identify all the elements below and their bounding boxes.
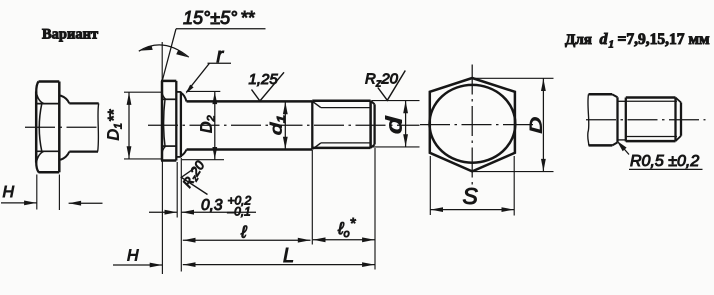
svg-text:d: d (382, 116, 407, 134)
variant fillet top (head to shank) (60, 96, 69, 104)
d dimension line (405, 101, 407, 147)
d arrow down (403, 134, 408, 147)
variant head top facet arc (36, 93, 43, 104)
right shank bottom edge (589, 144, 613, 147)
l arrow left (183, 238, 196, 243)
right thread outer top (626, 96, 676, 99)
angle leader horizontal (176, 28, 266, 30)
svg-text:L: L (283, 245, 294, 267)
svg-text:S: S (463, 183, 479, 209)
D2 arrow down (212, 147, 217, 160)
0,3 dim line right part (181, 211, 256, 213)
L dimension line (183, 264, 375, 266)
hexagon outline (430, 78, 515, 171)
angle arc arrowhead left (141, 46, 153, 51)
D1 arrow down (127, 146, 132, 159)
shank bottom edge (187, 148, 313, 151)
svg-text:–0,1: –0,1 (227, 205, 251, 219)
thread runout diagonal top (313, 101, 321, 107)
d1 arrow down (283, 137, 288, 150)
washer face extension (180, 158, 182, 272)
variant head bottom-left chamfer arc (36, 162, 39, 173)
main head bottom facet arc (162, 146, 166, 153)
variant H extension line right (58, 175, 60, 211)
svg-text:H: H (3, 184, 15, 201)
roughness tick 1,25 (252, 72, 285, 101)
shank top edge (187, 100, 313, 103)
hex centerline horizontal (420, 124, 534, 126)
main head facet line lower (162, 145, 176, 147)
main head bottom edge (161, 159, 176, 162)
variant head top-left chamfer arc (36, 82, 38, 93)
right thread outer bottom (626, 140, 676, 143)
variant fillet bottom (60, 152, 69, 160)
svg-text:D: D (527, 117, 546, 134)
L arrow left (183, 262, 196, 267)
L arrow right (362, 262, 375, 267)
angle arc arrowhead right (176, 50, 188, 57)
variant head facet line lower (36, 150, 59, 152)
S extension right (513, 156, 515, 216)
angle arc (139, 45, 189, 57)
R0,5 arrowhead (617, 141, 627, 151)
svg-text:Вариант: Вариант (42, 27, 98, 43)
thread minor diameter top line (321, 107, 371, 109)
H arrow (150, 263, 163, 268)
roughness tick Rz20 (378, 71, 406, 101)
variant H dimension line right part with arrow (69, 202, 103, 204)
D2 extension top (187, 90, 220, 92)
D extension bottom (474, 171, 554, 173)
d extension top (372, 100, 420, 102)
variant H dimension line left part with arrow (1, 202, 37, 204)
S extension left (429, 156, 431, 215)
svg-text:R0,5 ±0,2: R0,5 ±0,2 (630, 153, 699, 170)
main head left face (161, 81, 164, 161)
washer face line (180, 92, 182, 158)
thread start extension (311, 150, 313, 245)
D dimension line (542, 78, 544, 171)
variant shank bottom edge (69, 150, 98, 152)
svg-text:мм: мм (689, 31, 711, 48)
angle leader diagonal (162, 29, 176, 81)
D2 dimension line (214, 91, 216, 159)
washer top connector (176, 91, 181, 93)
d1 dimension line (284, 102, 286, 149)
R0,5 underline (629, 168, 703, 170)
main head top edge (161, 80, 176, 83)
d extension bottom (372, 146, 420, 148)
rotated roughness tick (181, 168, 207, 194)
variant head top edge (39, 80, 60, 83)
svg-text:H: H (127, 248, 139, 265)
svg-text:ℓ: ℓ (240, 223, 247, 242)
right shank end face (616, 97, 618, 142)
right chamfer diagonal top (676, 98, 682, 103)
bolt end face (373, 104, 375, 144)
thread runout diagonal bottom (313, 143, 321, 149)
right thread minor bottom (626, 136, 677, 138)
D1 extension line bottom (124, 158, 161, 160)
0,3 dim line left part (149, 211, 177, 213)
washer bottom fillet (181, 150, 186, 156)
right thread start line (625, 98, 627, 142)
D arrow down (541, 159, 546, 172)
washer top fillet r (181, 93, 186, 101)
chamfer diagonal top (371, 101, 375, 105)
main head top facet arc (162, 93, 166, 100)
0,3 extension line (head face) (176, 162, 178, 218)
D1 dimension line (128, 92, 130, 159)
D arrow up (541, 79, 546, 92)
right thread minor top (626, 100, 677, 102)
variant head right face (58, 82, 61, 173)
svg-text:15°±5°**: 15°±5°** (183, 8, 255, 28)
D extension top (473, 77, 554, 79)
variant head middle facet arc (39, 104, 42, 152)
svg-text:Для: Для (565, 32, 592, 48)
hex centerline vertical (471, 65, 473, 190)
l0 arrow right (362, 237, 375, 242)
angle extension line vertical (161, 42, 163, 80)
variant H extension line left (36, 175, 38, 210)
l dimension line (183, 239, 311, 241)
right view break line (588, 94, 589, 145)
r arrowhead (186, 85, 194, 94)
right thread end chamfer line (674, 98, 676, 142)
d1 arrow up (283, 102, 288, 115)
right shank top edge (589, 93, 613, 96)
variant head facet line upper (36, 103, 59, 105)
right shank end chamfer bottom (612, 142, 617, 145)
svg-text:1,25: 1,25 (249, 71, 279, 88)
main head middle facet arc (164, 99, 165, 146)
variant head bottom edge (39, 171, 60, 174)
main head facet line upper (162, 98, 176, 100)
svg-text:1: 1 (609, 39, 615, 51)
R0,5 leader (619, 143, 630, 155)
svg-text:d: d (600, 31, 609, 48)
svg-text:0,3: 0,3 (201, 197, 223, 214)
D1 extension line top (124, 91, 161, 93)
r leader diagonal (186, 63, 209, 92)
svg-text:=7,9,15,17: =7,9,15,17 (618, 31, 685, 48)
D1 arrow up (127, 92, 132, 105)
l arrow right (298, 238, 311, 243)
S arrow right (502, 207, 515, 212)
D2 arrow up (212, 92, 217, 105)
note text Для d1 = 7,9,15,17 мм (565, 31, 710, 51)
chamfer diagonal bottom (371, 145, 375, 148)
variant shank break line (98, 103, 99, 151)
H dim line (113, 264, 162, 266)
bolt end extension (374, 148, 376, 270)
groove top line (618, 100, 626, 102)
l0 arrow left (313, 237, 326, 242)
right view centerline (586, 119, 706, 121)
l0 dimension line (313, 239, 375, 241)
right chamfer diagonal bottom (676, 136, 682, 141)
centerline main view (148, 124, 420, 126)
variant head left face (35, 92, 38, 163)
thread end chamfer line (369, 101, 372, 148)
thread start boundary line (311, 101, 313, 150)
washer bottom connector (176, 156, 181, 158)
thread outer top (312, 100, 370, 103)
right bolt end face (680, 103, 682, 136)
thread minor diameter bottom line (321, 142, 371, 144)
thread outer bottom (312, 147, 370, 150)
main head right face (175, 81, 177, 161)
variant head bottom facet arc (36, 151, 43, 162)
d arrow up (403, 101, 408, 114)
variant shank top edge (69, 102, 98, 104)
head left face extension (161, 161, 163, 274)
inscribed chamfer circle (430, 85, 516, 163)
r underline (208, 62, 232, 64)
right shank end chamfer top (612, 94, 618, 97)
S dimension line (430, 209, 514, 211)
groove bottom line (618, 139, 626, 141)
svg-text:Rz20: Rz20 (365, 71, 399, 90)
D2 extension bottom (182, 159, 224, 161)
centerline variant view (25, 126, 97, 128)
S arrow left (431, 207, 444, 212)
